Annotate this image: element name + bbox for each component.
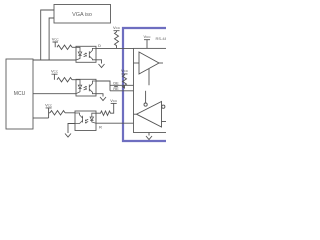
wire R2 to opto2 — [72, 79, 76, 81]
wire MCU DE row2 — [33, 93, 76, 95]
wire node DE — [110, 84, 134, 86]
svg-text:VCC: VCC — [121, 68, 129, 73]
resistor R6 — [96, 103, 114, 115]
resistor R2 — [57, 78, 72, 82]
wire R output stub — [134, 113, 137, 115]
MCU U1 box — [6, 59, 33, 129]
optocoupler U4 (mirrored) — [75, 111, 96, 131]
svg-text:MCU: MCU — [14, 91, 26, 97]
wire R1 to opto1 — [72, 46, 76, 48]
svg-text:VCC: VCC — [45, 103, 53, 108]
svg-text:D: D — [98, 44, 101, 48]
svg-text:RE: RE — [113, 87, 119, 91]
wire driver output — [159, 62, 163, 64]
driver A1 — [139, 52, 159, 74]
wire D input stub — [134, 62, 140, 64]
isolation boundary box (blue) — [123, 28, 166, 141]
bubble B input — [162, 105, 165, 108]
resistor R3 — [50, 111, 65, 115]
wire opto2 collector — [96, 81, 110, 91]
ground opto3 — [65, 124, 75, 138]
wire DE enable — [148, 69, 150, 86]
optocoupler U2 — [76, 46, 96, 62]
svg-text:VCC: VCC — [52, 37, 60, 42]
wire node D — [96, 47, 134, 49]
ground U5 — [146, 133, 152, 140]
ground opto1 — [96, 60, 105, 68]
wire A input — [162, 121, 167, 123]
receiver A2 — [137, 102, 162, 128]
svg-text:VCC: VCC — [143, 34, 151, 39]
svg-text:RS-48: RS-48 — [156, 36, 167, 41]
wire node R — [96, 122, 134, 124]
RS-485 transceiver U5 box — [134, 48, 171, 132]
svg-text:VCC: VCC — [51, 69, 59, 74]
wire power A — [41, 10, 54, 60]
power module box — [54, 5, 111, 24]
resistor R4 — [115, 32, 119, 48]
svg-text:DE: DE — [113, 82, 119, 86]
svg-text:VGA iso: VGA iso — [72, 12, 92, 18]
svg-text:VCC: VCC — [110, 98, 118, 103]
wire node RE — [110, 90, 134, 92]
wire MCU TXD row1 — [33, 59, 76, 61]
resistor R5 — [123, 75, 127, 88]
wire MCU RXD row3 — [33, 117, 49, 119]
bubble RE — [144, 103, 147, 106]
ground opto2 — [96, 94, 106, 101]
resistor R1 — [57, 45, 72, 49]
wire R3 node — [49, 112, 75, 114]
svg-text:VCC: VCC — [113, 25, 121, 30]
optocoupler U3 — [76, 79, 96, 96]
svg-text:R: R — [99, 126, 102, 130]
wire power B — [49, 18, 54, 60]
wire RE enable — [145, 91, 147, 103]
